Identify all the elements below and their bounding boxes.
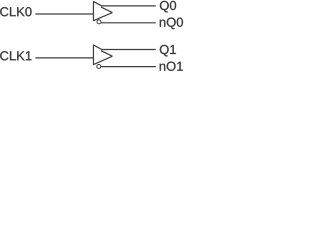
net label nQ0 (inverted output) bbox=[160, 18, 183, 30]
wire Q0 output bbox=[101, 5, 156, 7]
wire CLK1 input bbox=[35, 57, 93, 59]
net label Q0 (output) bbox=[160, 1, 176, 13]
inversion bubble U2 bbox=[97, 65, 101, 69]
wire nQ0 output bbox=[101, 22, 156, 24]
net label CLK0 (input) bbox=[0, 7, 31, 16]
differential clock buffer U1 (triangle) bbox=[93, 1, 112, 21]
wire CLK0 input bbox=[35, 13, 93, 15]
net label nQ1 (inverted output) bbox=[160, 62, 183, 74]
differential clock buffer U2 (triangle) bbox=[93, 45, 112, 65]
wire Q1 output bbox=[101, 49, 156, 51]
net label CLK1 (input) bbox=[0, 51, 31, 60]
wire nQ1 output bbox=[101, 66, 156, 68]
net label Q1 (output) bbox=[160, 45, 176, 57]
inversion bubble U1 bbox=[97, 20, 101, 24]
